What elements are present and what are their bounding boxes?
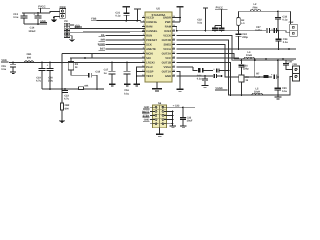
junction node rail-C14	[37, 12, 39, 14]
wire S6 right pins common	[172, 111, 174, 126]
wire analog ground rail	[42, 88, 99, 90]
capacitor C17	[104, 62, 116, 84]
connector S6 header body	[153, 102, 167, 128]
net label FSB	[91, 18, 96, 21]
ground (chassis, power block)	[51, 20, 58, 23]
ground (P8)	[69, 39, 76, 42]
wire lower rail y95	[230, 94, 288, 96]
wire U5 lower-left pins to ground	[136, 67, 145, 83]
capacitor C15 0.1u	[1, 63, 16, 72]
wire U5 pin17 row	[177, 75, 213, 77]
svg-text:SDI: SDI	[146, 57, 151, 60]
junction rail A x=238.5	[238, 30, 240, 32]
wire VDD rail	[9, 62, 145, 64]
wire U5 pin21 bend	[177, 54, 239, 60]
U5 pin row 3 (left pin 3, right pin 26)	[142, 24, 176, 28]
connector PWR	[59, 6, 66, 18]
capacitor C31 on pin17 wire	[213, 74, 222, 78]
wire FSB to U5	[96, 21, 145, 22]
ground (FB2)	[59, 121, 66, 124]
capacitor C38 (to CN3)	[283, 60, 293, 69]
capacitor C18	[88, 71, 100, 78]
net label BST	[99, 48, 106, 51]
wire mid rail 2 y60.3	[237, 59, 294, 61]
U5 pin row 13 (left pin 13, right pin 16)	[142, 69, 176, 73]
svg-text:220p: 220p	[243, 67, 249, 70]
buzzer B2 (rounded component)	[237, 17, 245, 30]
U5 part number	[152, 13, 166, 17]
svg-text:VSSP: VSSP	[146, 71, 154, 74]
ground (C15)	[10, 71, 16, 74]
svg-text:TEST: TEST	[146, 75, 153, 78]
svg-text:GNDR: GNDR	[163, 17, 171, 20]
svg-text:VCCK: VCCK	[163, 35, 171, 38]
svg-text:0.1u: 0.1u	[282, 90, 287, 93]
wire pin24 feed joint	[229, 94, 241, 96]
resistor R6 (zobel, filled)	[255, 75, 272, 78]
svg-text:RUN: RUN	[146, 35, 152, 38]
svg-text:SCK: SCK	[146, 44, 152, 47]
power bar (above C21)	[123, 7, 131, 13]
svg-text:0.1u: 0.1u	[1, 68, 6, 71]
wire U5 pin26 jog to output rail	[172, 27, 177, 31]
capacitor C13	[13, 13, 27, 24]
wire B2 drop	[238, 11, 240, 17]
wire rail A into connector CN2	[286, 31, 290, 33]
ferrite bead FB1 600	[24, 53, 33, 62]
ground (S6 right)	[169, 126, 176, 129]
svg-text:U5: U5	[156, 8, 160, 11]
capacitor C32 10uF	[180, 107, 193, 125]
svg-text:VSSA: VSSA	[164, 66, 172, 69]
wire C18 to gnd rail	[92, 75, 98, 90]
wire top-right rail	[239, 10, 291, 12]
wire pin17 stub to ground	[204, 75, 206, 78]
junction top rail C33	[277, 10, 279, 12]
svg-text:OUT2A: OUT2A	[162, 53, 171, 56]
U5 pin row 4 (left pin 4, right pin 25)	[142, 29, 176, 33]
svg-text:+ C32: + C32	[173, 104, 180, 107]
resistor R3 1k	[68, 58, 78, 75]
capacitor C36 220p	[239, 60, 250, 75]
resistor R4 68k (on gnd rail)	[78, 84, 89, 89]
wire row11 to U5	[70, 57, 145, 59]
wire S6 bottom stem	[159, 128, 161, 134]
capacitor C19 4.7u	[36, 63, 45, 90]
ground (U5 bottom)	[152, 88, 162, 91]
capacitor C28 polarized (series, rail A)	[271, 28, 279, 33]
ground (U5 left pins)	[134, 84, 140, 87]
junction rail y49 x278.5	[278, 48, 290, 50]
wire output rail A	[176, 30, 286, 32]
resistor R5 1k	[239, 75, 249, 96]
junction VDD-C19	[41, 62, 43, 64]
svg-text:SNES: SNES	[164, 44, 172, 47]
svg-text:0.1u: 0.1u	[197, 21, 202, 24]
ground (C17)	[109, 84, 115, 87]
net label SGND	[98, 43, 106, 46]
wire U5 pin22 rail top-right	[177, 48, 296, 50]
capacitor C16 0.1u	[124, 62, 131, 96]
capacitor C33 (top right)	[275, 11, 288, 31]
svg-text:1u: 1u	[104, 72, 107, 75]
inductor L4 label	[246, 51, 252, 57]
wire mid rail y59	[239, 58, 297, 60]
svg-text:PLLF: PLLF	[146, 66, 153, 69]
svg-text:OUT1B: OUT1B	[162, 62, 171, 65]
wire U5 pin15 row to C29	[177, 67, 198, 71]
net label INL	[99, 34, 106, 37]
S6 pin pair row 1	[150, 106, 173, 108]
capacitor C25 (decoupling pair right)	[219, 26, 225, 32]
net label GND (power block)	[40, 20, 47, 23]
wire U5 pins 28,27 to power	[172, 17, 181, 22]
S6 pin pair row 3	[150, 115, 173, 117]
wire BST to U5	[106, 48, 146, 50]
power bar (x=137)	[134, 9, 141, 21]
ferrite bead FB2 600	[60, 103, 70, 120]
wire ground rail	[24, 23, 47, 25]
inductor L2	[250, 10, 260, 12]
junction VDD-C15	[12, 62, 14, 64]
wire U5 pin16 to ground	[177, 72, 180, 89]
wire top rail FVCC	[22, 12, 50, 14]
capacitor C20 2.2uF	[47, 63, 54, 90]
connector CN2	[289, 21, 298, 36]
junction VDD-C20	[49, 62, 51, 64]
svg-text:R224: R224	[164, 30, 171, 33]
svg-text:C38: C38	[288, 60, 293, 63]
svg-text:RAM: RAM	[165, 26, 172, 29]
wire vertical row10-row11 joint	[91, 54, 93, 59]
ground (C26)	[202, 85, 209, 88]
svg-text:MCKI: MCKI	[146, 53, 153, 56]
wire P8 pin3 to U5	[70, 31, 145, 33]
ground (C16)	[124, 84, 130, 87]
wire U5 pin20 bend down	[177, 58, 239, 59]
wire U5 pin19 bend down	[177, 63, 231, 96]
svg-text:AMUTE: AMUTE	[146, 48, 156, 51]
wire row10 to U5 (from vertical)	[62, 53, 145, 55]
svg-text:4.7u: 4.7u	[64, 98, 69, 101]
U5 pin row 2 (left pin 2, right pin 27)	[142, 20, 176, 24]
capacitor C22 (decoupling pair left)	[212, 26, 221, 32]
op-amp IC U5 STA540SA body	[145, 8, 172, 82]
wire U5 pin23 bend down	[177, 45, 255, 78]
power bar (U5 pin 28)	[176, 7, 183, 22]
capacitor C29 (series)	[198, 68, 213, 73]
power flag FVCC (right)	[215, 6, 227, 25]
svg-text:GND: GND	[165, 75, 171, 78]
ground (C32)	[180, 126, 187, 129]
wire INL to U5	[106, 35, 146, 37]
svg-text:VCCD: VCCD	[146, 17, 154, 20]
capacitor C39 (lower, to ground)	[275, 87, 288, 95]
capacitor C37 polarized (zobel)	[271, 73, 279, 79]
U5 pin row 12 (left pin 12, right pin 17)	[142, 65, 176, 69]
inductor L5 label	[254, 87, 260, 93]
svg-text:FR4: FR4	[253, 7, 258, 10]
S6 pin pair row 4	[150, 119, 173, 121]
svg-text:2.5V: 2.5V	[75, 26, 80, 29]
svg-text:C18: C18	[95, 71, 100, 74]
svg-text:600: 600	[65, 107, 70, 110]
svg-text:0.1u: 0.1u	[283, 41, 288, 44]
svg-text:LO: LO	[241, 22, 244, 25]
wire P8 pin2 to U5	[70, 26, 145, 29]
svg-text:0.1u: 0.1u	[282, 18, 287, 21]
wire SGND to U5	[106, 44, 146, 46]
svg-text:PRESET: PRESET	[146, 39, 157, 42]
U5 pin row 11 (left pin 11, right pin 18)	[142, 60, 176, 64]
S6 pin pair row 2	[150, 111, 173, 113]
svg-text:100uF: 100uF	[28, 30, 36, 33]
capacitor C21 0.1u	[115, 12, 129, 22]
wire rail to CN2	[289, 11, 292, 27]
svg-text:4.7u: 4.7u	[36, 80, 41, 83]
capacitor C30 polarized	[197, 68, 230, 81]
U5 pin row 6 (left pin 6, right pin 23)	[142, 38, 176, 42]
U5 pin row 1 (left pin 1, right pin 28)	[142, 15, 176, 19]
ground (S6 bottom)	[156, 134, 164, 137]
wire zobel vertical to lower rail	[277, 60, 279, 87]
svg-text:0.1u: 0.1u	[115, 15, 120, 18]
net label VDD (P8)	[74, 24, 81, 27]
wire S6 row1 to C32	[173, 104, 196, 108]
U5 pin row 14 (left pin 14, right pin 15)	[142, 74, 176, 78]
svg-text:10uF: 10uF	[187, 120, 193, 123]
U5 pin row 5 (left pin 5, right pin 24)	[142, 33, 176, 37]
svg-text:OUT1A: OUT1A	[162, 71, 171, 74]
svg-text:CANSEL: CANSEL	[146, 30, 158, 33]
svg-text:VCCA: VCCA	[163, 48, 171, 51]
svg-text:0.1u: 0.1u	[124, 92, 129, 95]
wire INR to U5	[106, 39, 146, 41]
svg-text:0.47u: 0.47u	[255, 29, 262, 32]
U5 pin row 7 (left pin 7, right pin 22)	[142, 42, 176, 46]
svg-text:RAM: RAM	[146, 26, 153, 29]
wire CN3 pin2	[288, 77, 293, 96]
wire rail to connector PWR pin1	[50, 12, 60, 14]
net labels S6 left	[142, 106, 150, 121]
svg-text:VCC: VCC	[165, 57, 171, 60]
wire vertical with FB2	[61, 54, 63, 104]
capacitor C24 10uF (to rail B)	[236, 31, 249, 50]
capacitor C27 0.47u (series, rail A)	[255, 26, 270, 33]
series cap gap mask	[266, 28, 270, 33]
capacitor C26 (to ground)	[202, 78, 208, 84]
svg-text:220p: 220p	[242, 36, 248, 39]
capacitor C14 100uF	[28, 13, 41, 33]
power flag FVCC (top-left)	[38, 5, 50, 13]
U5 ground stem	[156, 82, 158, 88]
wire P8 pin1 to VDD	[70, 24, 74, 26]
U5 pin row 8 (left pin 8, right pin 21)	[142, 47, 176, 51]
svg-text:PWF: PWF	[165, 21, 171, 24]
wire U5 pin24 bend down	[177, 40, 240, 95]
inductor L4	[244, 57, 255, 59]
net label VGND	[215, 87, 228, 90]
net label INR	[99, 39, 106, 42]
net label VDD (left rail)	[1, 59, 8, 62]
wire zobel y77	[254, 60, 256, 77]
svg-text:OUT2B: OUT2B	[162, 39, 171, 42]
U5 pin row 10 (left pin 10, right pin 19)	[142, 56, 176, 60]
wire connector PWR pin2 to ground	[53, 16, 60, 19]
svg-text:CONFIG: CONFIG	[146, 21, 157, 24]
ground (pin16)	[177, 89, 184, 92]
capacitor C35 label (0.47u)	[255, 73, 260, 79]
svg-text:CN2: CN2	[289, 21, 294, 24]
connector P8	[64, 20, 70, 37]
svg-text:LRCKI: LRCKI	[146, 62, 155, 65]
ground (lower rail)	[275, 95, 282, 99]
U5 pin row 9 (left pin 9, right pin 20)	[142, 51, 176, 55]
svg-text:600: 600	[27, 56, 32, 59]
S6 pin pair row 5	[150, 123, 173, 125]
power bar (FVCC rail A)	[197, 8, 208, 32]
svg-text:2.2u: 2.2u	[48, 80, 53, 83]
svg-text:10uH: 10uH	[246, 54, 252, 57]
wire P8 pin4 to ground	[70, 36, 72, 39]
capacitor C23 (on gnd rail)	[62, 88, 70, 101]
svg-text:0.1u: 0.1u	[197, 78, 202, 81]
wire R3 to C18	[71, 74, 88, 76]
inductor L2 label	[253, 3, 258, 9]
connector CN3	[292, 63, 299, 81]
inductor L5	[252, 93, 263, 95]
wire U5 pin25 bend down	[177, 36, 237, 61]
ground bar (end of rail)	[99, 88, 104, 89]
svg-text:0.1u: 0.1u	[13, 16, 19, 19]
capacitor C34 between rails	[276, 31, 289, 49]
